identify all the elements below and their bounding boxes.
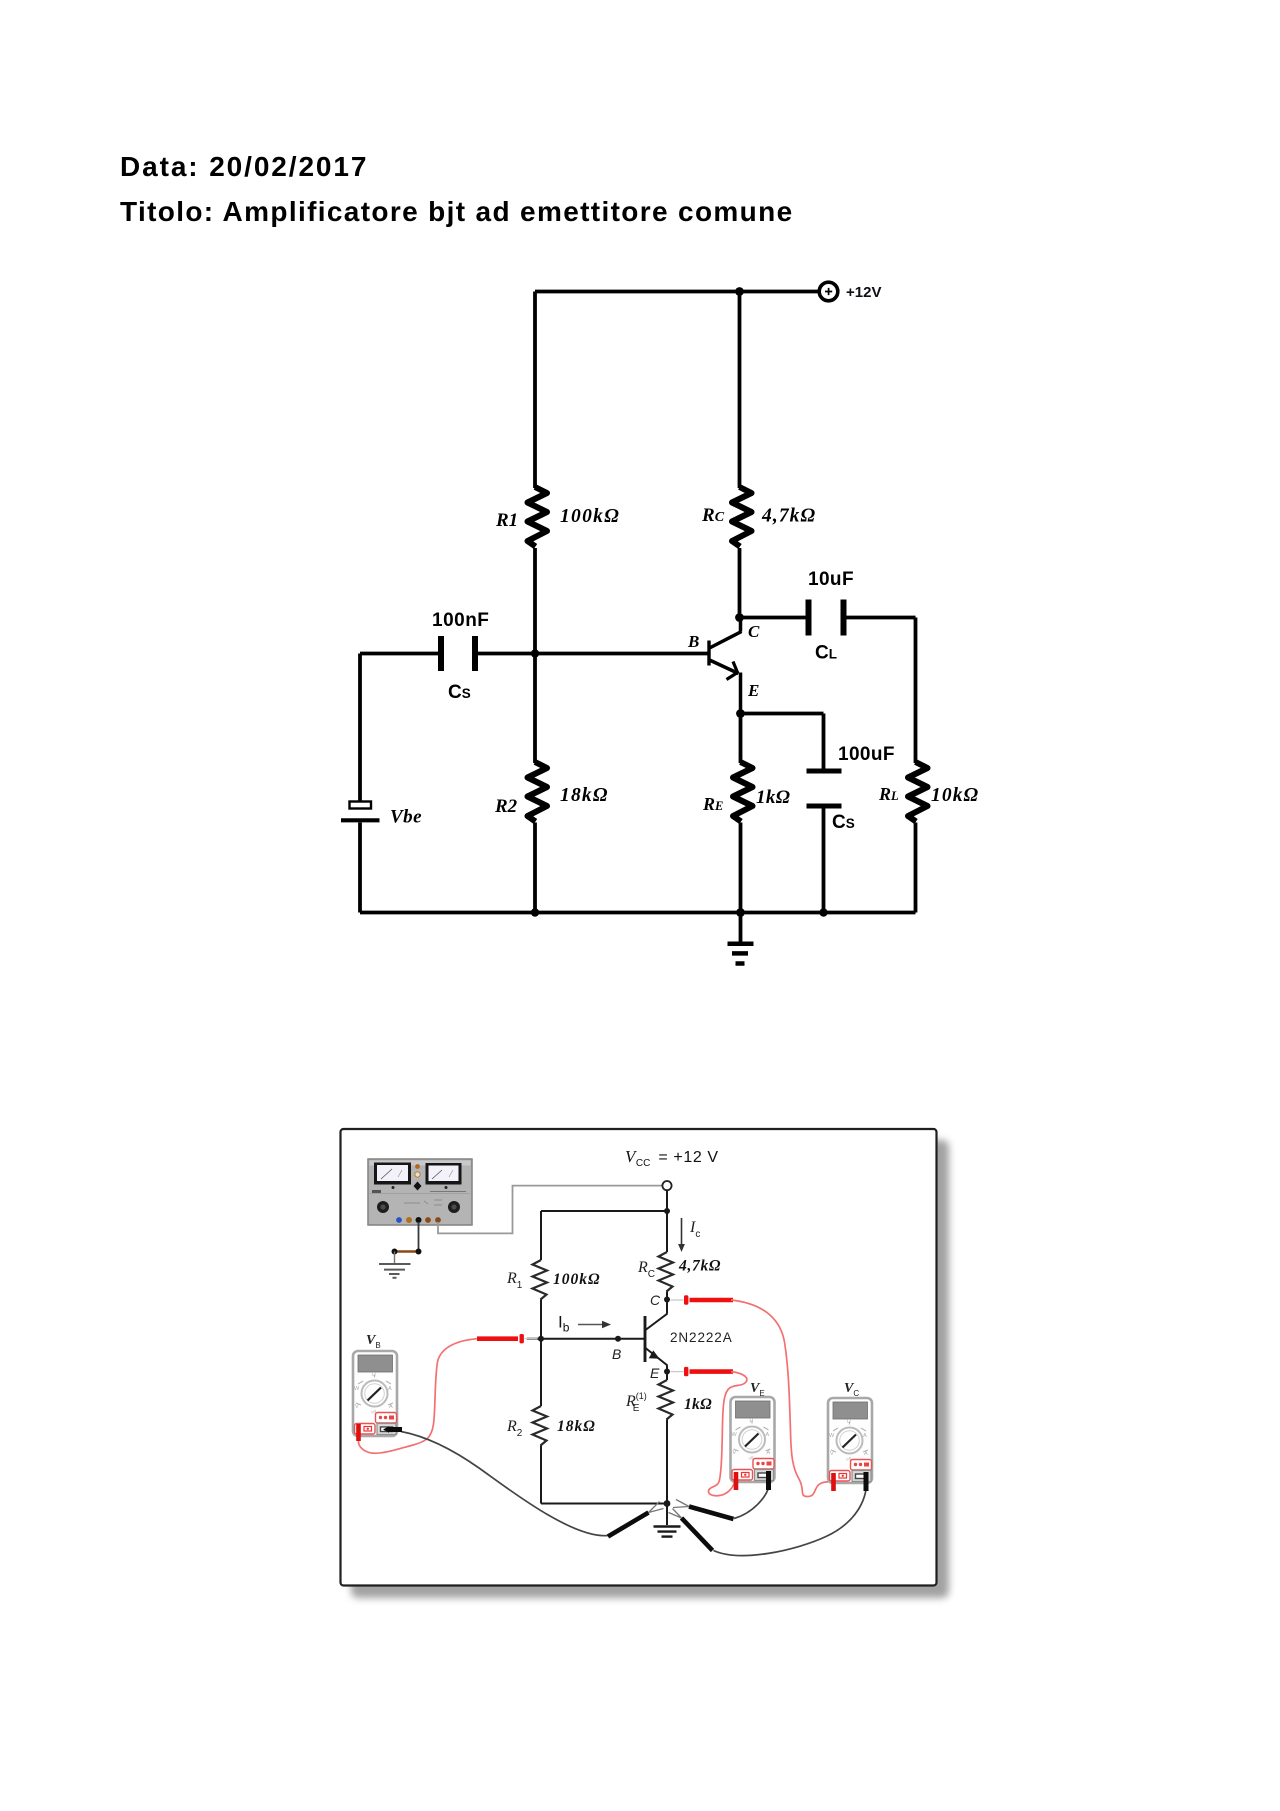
ground psu bbox=[379, 1264, 411, 1278]
multimeter VB bbox=[353, 1351, 397, 1436]
wire source left branch bbox=[358, 654, 362, 913]
arrow Ic bbox=[681, 1218, 683, 1245]
wire emitter to bypass cap bbox=[741, 714, 824, 770]
resistor Rc bbox=[732, 487, 752, 547]
svg-text:V: V bbox=[733, 1450, 737, 1456]
svg-text:B: B bbox=[687, 632, 699, 651]
node ground inner bbox=[664, 1500, 671, 1507]
plug black VE bbox=[766, 1471, 771, 1490]
svg-text:W: W bbox=[732, 1432, 738, 1438]
transistor 2N2222A bbox=[645, 1300, 668, 1372]
ground bbox=[728, 913, 754, 964]
svg-text:2N2222A: 2N2222A bbox=[670, 1330, 733, 1345]
node C bbox=[735, 613, 744, 622]
svg-text:18kΩ: 18kΩ bbox=[557, 1418, 596, 1435]
svg-text:C: C bbox=[650, 1292, 661, 1308]
svg-text:+12V: +12V bbox=[846, 284, 881, 301]
node E bbox=[736, 709, 745, 718]
wire left branch lower bbox=[533, 823, 537, 913]
node base wire crossing bbox=[531, 649, 539, 657]
svg-text:CL: CL bbox=[815, 643, 837, 664]
node top tee bbox=[664, 1208, 670, 1214]
svg-text:A: A bbox=[389, 1404, 393, 1410]
node rail R2 bbox=[531, 908, 539, 916]
node C inner bbox=[664, 1297, 670, 1303]
wire to psu ground bbox=[394, 1252, 396, 1264]
wire psu black lead bbox=[418, 1222, 420, 1252]
plug red VE bbox=[734, 1472, 739, 1490]
wire emitter branch bbox=[739, 714, 743, 764]
transistor Q1 bbox=[709, 618, 742, 714]
multimeter VE bbox=[731, 1397, 775, 1482]
svg-text:W: W bbox=[354, 1386, 360, 1392]
resistor R2 inner bbox=[533, 1406, 548, 1446]
resistor R1 bbox=[528, 487, 548, 547]
svg-text:4,7kΩ: 4,7kΩ bbox=[761, 506, 816, 527]
wire E to RE inner bbox=[666, 1372, 668, 1381]
multimeter VC bbox=[828, 1398, 872, 1483]
wire RE lower bbox=[739, 823, 743, 913]
wire black VE bbox=[734, 1486, 769, 1519]
wire top rail inner bbox=[541, 1210, 667, 1212]
node E inner bbox=[664, 1369, 670, 1375]
wire bypass cap lower bbox=[822, 807, 826, 913]
resistor R1 inner bbox=[533, 1260, 548, 1300]
resistor RE inner bbox=[659, 1380, 674, 1420]
svg-text:RL: RL bbox=[878, 784, 899, 804]
svg-text:V: V bbox=[355, 1404, 359, 1410]
svg-text:C: C bbox=[748, 622, 760, 641]
svg-text:10uF: 10uF bbox=[808, 569, 854, 590]
clip black bottom bbox=[669, 1509, 713, 1551]
svg-text:R1: R1 bbox=[495, 510, 518, 531]
battery Vbe bbox=[341, 802, 380, 821]
svg-text:RE: RE bbox=[702, 794, 723, 814]
figure lab setup bbox=[341, 1129, 950, 1598]
terminal Vcc bbox=[662, 1181, 671, 1190]
capacitor Cs input 100nF bbox=[441, 636, 475, 671]
svg-text:1kΩ: 1kΩ bbox=[684, 1396, 712, 1413]
wire Vcc drop bbox=[666, 1190, 668, 1211]
arrow Ib bbox=[578, 1324, 603, 1326]
figure shadow bbox=[351, 1140, 949, 1598]
clip black right bbox=[673, 1500, 734, 1520]
figure frame bbox=[341, 1129, 937, 1586]
resistor R2 bbox=[528, 762, 548, 822]
wire collector branch inner bbox=[666, 1211, 668, 1252]
svg-text:Vbe: Vbe bbox=[390, 807, 422, 828]
wire red VC bbox=[731, 1300, 834, 1497]
svg-text:100nF: 100nF bbox=[432, 610, 489, 631]
svg-text:1kΩ: 1kΩ bbox=[756, 787, 790, 808]
svg-text:R2: R2 bbox=[494, 796, 518, 817]
node B inner bbox=[615, 1336, 621, 1342]
wire right branch upper bbox=[738, 292, 742, 489]
node rail RE bbox=[736, 908, 745, 917]
wire psu to Vcc bbox=[438, 1186, 662, 1234]
svg-text:A: A bbox=[863, 1433, 867, 1439]
wire RL lower bbox=[914, 823, 918, 913]
wire left branch upper bbox=[533, 292, 537, 489]
probe red B bbox=[477, 1334, 538, 1343]
probe red C bbox=[671, 1295, 734, 1304]
resistor Rc inner bbox=[659, 1252, 674, 1292]
wire CL to load bbox=[845, 618, 916, 764]
capacitor Cs bypass 100uF bbox=[807, 771, 842, 806]
resistor RL bbox=[908, 762, 928, 822]
svg-text:10kΩ: 10kΩ bbox=[931, 785, 979, 806]
resistor RE bbox=[733, 762, 753, 822]
plug black VC bbox=[864, 1472, 869, 1491]
wire left branch mid bbox=[533, 548, 537, 763]
wire black VC bbox=[714, 1486, 867, 1556]
power supply unit bbox=[368, 1159, 472, 1225]
svg-text:CS: CS bbox=[832, 812, 855, 833]
wire collector feed bbox=[738, 548, 742, 618]
svg-text:A: A bbox=[864, 1451, 868, 1457]
probe red E bbox=[671, 1367, 734, 1376]
svg-text:A: A bbox=[388, 1386, 392, 1392]
svg-text:RC: RC bbox=[701, 505, 725, 526]
wire top rail bbox=[535, 290, 819, 294]
wire left branch upper inner bbox=[540, 1211, 542, 1260]
wire RE lower inner bbox=[666, 1420, 668, 1504]
node rail bypass bbox=[819, 908, 827, 916]
capacitor CL 10uF bbox=[809, 600, 844, 636]
+12V supply terminal bbox=[819, 282, 838, 301]
svg-text:4,7kΩ: 4,7kΩ bbox=[678, 1258, 721, 1275]
svg-text:100uF: 100uF bbox=[838, 744, 895, 765]
svg-text:100kΩ: 100kΩ bbox=[553, 1271, 601, 1288]
plug red VB bbox=[356, 1424, 361, 1441]
clip black left bbox=[608, 1502, 664, 1537]
node top junction bbox=[735, 287, 744, 296]
wire base input segment right bbox=[477, 652, 708, 656]
wire base inner bbox=[527, 1338, 645, 1340]
svg-text:A: A bbox=[766, 1432, 770, 1438]
node base tee inner bbox=[538, 1336, 544, 1342]
wire base input segment left bbox=[360, 652, 439, 656]
wire red VB bbox=[359, 1339, 477, 1454]
wire ground rail bbox=[360, 911, 916, 915]
svg-text:18kΩ: 18kΩ bbox=[560, 785, 609, 806]
svg-text:Ω: Ω bbox=[847, 1419, 851, 1425]
svg-text:W: W bbox=[829, 1433, 835, 1439]
wire C node to CL bbox=[740, 616, 808, 620]
svg-text:Ω: Ω bbox=[372, 1372, 376, 1378]
plug black VB bbox=[383, 1426, 402, 1432]
svg-text:CS: CS bbox=[448, 682, 471, 703]
svg-text:Ω: Ω bbox=[750, 1418, 754, 1424]
wire left branch lower inner bbox=[540, 1446, 542, 1504]
svg-text:E: E bbox=[650, 1365, 660, 1381]
ground inner bbox=[654, 1504, 681, 1537]
wire Rc to C node bbox=[666, 1292, 668, 1300]
svg-text:B: B bbox=[612, 1346, 621, 1362]
svg-text:100kΩ: 100kΩ bbox=[560, 506, 620, 527]
svg-text:A: A bbox=[767, 1450, 771, 1456]
wire bottom rail inner bbox=[541, 1503, 667, 1505]
svg-text:E: E bbox=[747, 681, 759, 700]
wire black VB bbox=[401, 1432, 608, 1536]
svg-text:V: V bbox=[830, 1451, 834, 1457]
plug red VC bbox=[831, 1473, 836, 1491]
wire left branch mid inner bbox=[540, 1300, 542, 1407]
wire brown jumper bbox=[395, 1250, 419, 1253]
wire red VE bbox=[708, 1372, 746, 1496]
